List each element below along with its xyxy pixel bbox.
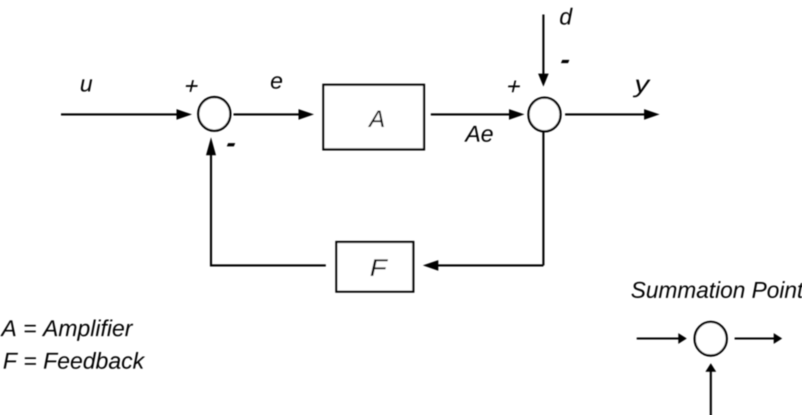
wire d input [538, 15, 549, 87]
label A [368, 110, 384, 127]
legend text F = Feedback [4, 352, 146, 369]
wire u input [61, 109, 192, 120]
label Ae [464, 126, 492, 142]
wire feedback down from S2 [542, 132, 544, 266]
summing junction S1 [198, 97, 230, 131]
legend text A = Amplifier [0, 319, 133, 340]
summing junction S2 [528, 98, 560, 132]
legend title Summation Point [631, 281, 802, 298]
block A (amplifier) [323, 85, 424, 150]
label u [81, 79, 92, 91]
block F (feedback) [336, 242, 413, 292]
legend wire in (bottom arrow) [705, 363, 716, 415]
legend summation point circle [695, 322, 727, 356]
legend wire out (right arrow) [735, 333, 783, 344]
label y [633, 80, 651, 98]
label - at d input [561, 60, 570, 63]
wire e [234, 109, 315, 120]
label F [371, 259, 388, 276]
wire feedback into F [423, 260, 544, 271]
wire F output to S1 [206, 137, 326, 266]
label - at summing junction S1 [227, 143, 236, 146]
wire Ae [431, 109, 525, 120]
label + at summing junction S1 [185, 80, 199, 92]
wire y output [565, 109, 660, 120]
legend wire in (left arrow) [637, 333, 687, 344]
label d [560, 8, 573, 25]
label + at summing junction S2 [507, 81, 521, 93]
label e [271, 76, 282, 89]
